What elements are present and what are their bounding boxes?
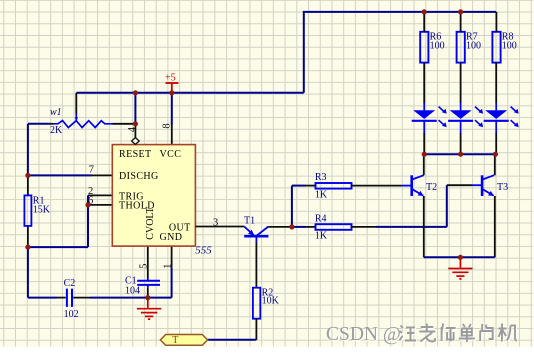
svg-text:C2: C2: [64, 278, 76, 289]
svg-text:RESET: RESET: [119, 149, 152, 160]
pin RESET pin4: [134, 124, 136, 138]
transistor T1: [244, 227, 268, 243]
LED D1: [412, 103, 447, 133]
svg-text:555: 555: [195, 245, 212, 257]
potentiometer w1 zigzag: [54, 121, 113, 128]
wire pot left terminal: [28, 123, 50, 125]
pin CVOLT pin5 black: [147, 246, 149, 278]
watermark CJK glyph strokes: [401, 325, 519, 344]
node LED2 rail: [458, 152, 463, 157]
wire VCC drop: [171, 93, 173, 125]
wire T1 collector to R3/R4 junction: [268, 226, 292, 228]
wire left bottom vertical: [27, 247, 29, 298]
svg-text:T: T: [172, 335, 178, 346]
watermark CSDN: [326, 324, 402, 346]
node TRIG/THOLD: [85, 202, 90, 207]
pin R6 top: [423, 12, 425, 32]
svg-text:15K: 15K: [33, 204, 51, 215]
wire T3 base riser: [446, 185, 448, 227]
svg-text:8: 8: [162, 123, 173, 128]
pin THOLD pin6: [88, 204, 112, 206]
wire +5 rail horizontal: [76, 92, 303, 94]
svg-text:2K: 2K: [50, 125, 63, 136]
transistor T2: [412, 175, 424, 196]
wire R1 top pin: [27, 175, 29, 195]
wire top rail: [303, 11, 496, 13]
svg-text:10K: 10K: [262, 296, 280, 307]
node T1/R3/R4: [289, 224, 294, 229]
wire R2 bottom: [255, 319, 257, 340]
resistor R8 body: [492, 32, 500, 63]
wire pot right terminal horizontal: [113, 123, 136, 125]
svg-text:4: 4: [127, 126, 138, 132]
svg-text:T2: T2: [426, 182, 437, 193]
LED D3: [484, 103, 519, 133]
wire bottom horizontal to C2: [28, 297, 57, 299]
svg-text:100: 100: [502, 40, 517, 51]
svg-text:CSDN @: CSDN @: [326, 324, 401, 345]
svg-text:DISCHG: DISCHG: [119, 171, 159, 182]
wire LED3 to rail: [495, 133, 497, 154]
node VCC/+5: [169, 90, 174, 95]
wire T3 base horizontal: [447, 184, 472, 186]
svg-text:100: 100: [466, 40, 481, 51]
svg-text:T3: T3: [497, 182, 508, 193]
wire T2 emitter down: [423, 196, 425, 257]
node R6 top: [422, 9, 427, 14]
wire LED1 to rail: [423, 133, 425, 154]
wire TRIG-THOLD vertical: [87, 195, 89, 247]
svg-text:102: 102: [64, 309, 79, 320]
svg-text:VCC: VCC: [160, 149, 182, 160]
node emitter ground: [458, 255, 463, 260]
node LED1 rail: [422, 152, 427, 157]
wire left vertical (pot to R1 to bottom): [27, 124, 29, 176]
transistor T3: [482, 175, 494, 196]
node DISCHG/R1: [25, 173, 30, 178]
wire R3 right to T2 base: [352, 185, 403, 187]
pin VCC pin8: [171, 125, 173, 145]
port T: [160, 335, 207, 346]
svg-text:1K: 1K: [315, 189, 328, 200]
wire R7 to LED2: [460, 63, 462, 103]
svg-text:GND: GND: [160, 232, 183, 243]
wire R8 to LED3: [495, 63, 497, 103]
wire R3 left vertical: [291, 186, 293, 227]
svg-text:5: 5: [139, 264, 150, 269]
resistor R7 body: [457, 32, 465, 63]
wire T3 collector: [494, 154, 496, 175]
svg-text:R3: R3: [315, 172, 327, 183]
wire THOLD junction to R1: [28, 246, 88, 248]
pin DISCHG pin7: [92, 174, 112, 176]
pin OUT pin3: [195, 226, 244, 228]
wire pot right terminal drop: [134, 93, 136, 124]
wire emitter rail: [424, 256, 495, 258]
wire R4 left: [292, 226, 306, 228]
wire T1 base to R2: [255, 243, 257, 288]
pin TRIG pin2: [88, 194, 112, 196]
pin R7 top: [460, 12, 462, 32]
svg-text:w1: w1: [50, 107, 62, 118]
resistor R4 body: [316, 224, 352, 230]
ground symbol under transistors: [448, 257, 472, 279]
wire LED2 to rail: [460, 133, 462, 154]
svg-text:CVOLT: CVOLT: [145, 207, 156, 239]
power +5 symbol: [166, 83, 179, 93]
resistor R2 body: [253, 288, 260, 319]
svg-text:1: 1: [163, 264, 174, 269]
node pot-right/+5: [133, 90, 138, 95]
wire to T port: [208, 339, 257, 341]
svg-text:+5: +5: [165, 73, 176, 84]
node C1/ground: [145, 295, 150, 300]
resistor R3 body: [316, 183, 352, 189]
resistor R6 body: [420, 32, 428, 63]
pin R8 top: [495, 12, 497, 32]
wire collector rail: [424, 153, 496, 155]
wire pin1 riser: [171, 268, 173, 298]
ground symbol under C1: [137, 298, 161, 320]
wire R4 right: [352, 226, 377, 228]
wire R1 bottom pin: [27, 226, 29, 247]
svg-text:T1: T1: [244, 215, 255, 226]
wire R6 to LED1: [423, 63, 425, 103]
node R1 bottom: [25, 245, 30, 250]
wire C1 bottom stub: [147, 285, 149, 288]
wire R3 left: [292, 185, 306, 187]
svg-text:1K: 1K: [315, 231, 328, 242]
pin GND pin1 black: [171, 246, 173, 268]
resistor R1 body: [24, 195, 31, 226]
wire T3 emitter down: [494, 196, 496, 257]
IC U1 555 body: [112, 145, 195, 247]
svg-text:100: 100: [430, 40, 445, 51]
node R7 top: [458, 9, 463, 14]
capacitor C1 plates: [137, 281, 160, 285]
wire riser to top rail: [303, 12, 305, 93]
wire C2 to ground junction to pin1 riser: [73, 297, 90, 299]
wire DISCHG net: [28, 174, 92, 176]
svg-text:104: 104: [125, 285, 140, 296]
node pot right / pin4: [133, 121, 138, 126]
capacitor C2 plates: [67, 289, 72, 307]
node LED3 rail: [493, 152, 498, 157]
potentiometer w1 wiper: [75, 93, 77, 114]
svg-text:7: 7: [89, 165, 94, 176]
pin4 RESET active-low circle: [132, 138, 140, 145]
LED D2: [448, 103, 483, 133]
svg-text:R4: R4: [315, 213, 327, 224]
wire T2 collector: [423, 154, 425, 175]
